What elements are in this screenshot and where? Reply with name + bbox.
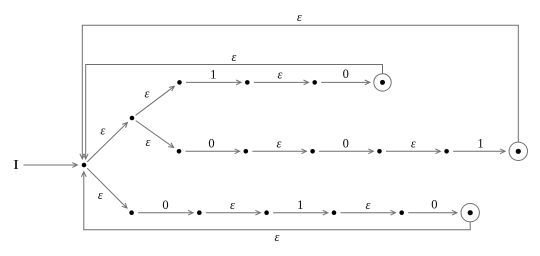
- edge 0: q7 -> q8: [319, 149, 373, 154]
- state q12: [264, 210, 269, 215]
- svg-text:0: 0: [162, 198, 168, 212]
- edge epsilon: q1 -> q5: [136, 121, 174, 148]
- svg-text:ε: ε: [275, 230, 280, 244]
- svg-text:0: 0: [343, 136, 349, 150]
- edge 0: q14 -> accept F3: [408, 210, 457, 215]
- svg-text:0: 0: [208, 136, 214, 150]
- svg-text:1: 1: [210, 67, 216, 81]
- state q7: [310, 149, 315, 154]
- state q9: [444, 149, 449, 154]
- svg-text:ε: ε: [366, 198, 371, 212]
- edge 0: q10 -> q11: [138, 210, 193, 215]
- svg-text:I: I: [13, 157, 20, 172]
- state q6: [244, 149, 249, 154]
- edge epsilon: q6 -> q7: [252, 149, 306, 154]
- state q3: [245, 80, 250, 85]
- svg-text:0: 0: [343, 67, 349, 81]
- state q5: [177, 149, 182, 154]
- svg-text:ε: ε: [411, 137, 416, 151]
- svg-text:ε: ε: [100, 124, 105, 138]
- svg-text:1: 1: [297, 198, 303, 212]
- edge 0: q5 -> q6: [186, 149, 240, 154]
- svg-text:ε: ε: [98, 188, 103, 202]
- svg-text:ε: ε: [230, 198, 235, 212]
- edge epsilon: q0 -> q10: [87, 168, 127, 208]
- wire: epsilon loop F2 -> q0 (top): [80, 25, 518, 159]
- svg-text:ε: ε: [297, 10, 302, 24]
- edge epsilon: q8 -> q9: [386, 149, 440, 154]
- wire: epsilon loop F3 -> q0 (bottom): [81, 172, 470, 230]
- state q4: [312, 80, 317, 85]
- state q10: [129, 210, 134, 215]
- state q2: [177, 80, 182, 85]
- svg-text:0: 0: [431, 197, 437, 211]
- svg-text:ε: ε: [277, 137, 282, 151]
- edge epsilon: q13 -> q14: [341, 210, 396, 215]
- state q14: [399, 210, 404, 215]
- svg-text:ε: ε: [232, 50, 237, 64]
- arrow: I to start state q0: [24, 163, 78, 168]
- svg-text:ε: ε: [146, 135, 151, 149]
- edge 0: q4 -> accept F1: [321, 80, 370, 85]
- state q1 (branch node): [130, 116, 135, 121]
- svg-text:1: 1: [477, 136, 483, 150]
- state q8: [377, 149, 382, 154]
- edge 1: q12 -> q13: [273, 210, 328, 215]
- wire: epsilon loop F1 -> q0 (middle): [83, 65, 382, 159]
- edge epsilon: q11 -> q12: [206, 210, 261, 215]
- edge epsilon: q3 -> q4: [254, 80, 309, 85]
- edge 1: q9 -> accept F2: [453, 149, 505, 154]
- state q0 (start node): [82, 163, 87, 168]
- svg-text:ε: ε: [278, 68, 283, 82]
- edge 1: q2 -> q3: [186, 80, 241, 85]
- edge epsilon: q1 -> q2: [136, 86, 175, 115]
- state q13: [332, 210, 337, 215]
- accepting state F2: [509, 142, 527, 160]
- edge epsilon: q0 -> q1 (branch): [87, 123, 127, 162]
- svg-text:ε: ε: [145, 86, 150, 100]
- accepting state F3: [461, 204, 479, 222]
- accepting state F1: [374, 74, 391, 91]
- state q11: [197, 210, 202, 215]
